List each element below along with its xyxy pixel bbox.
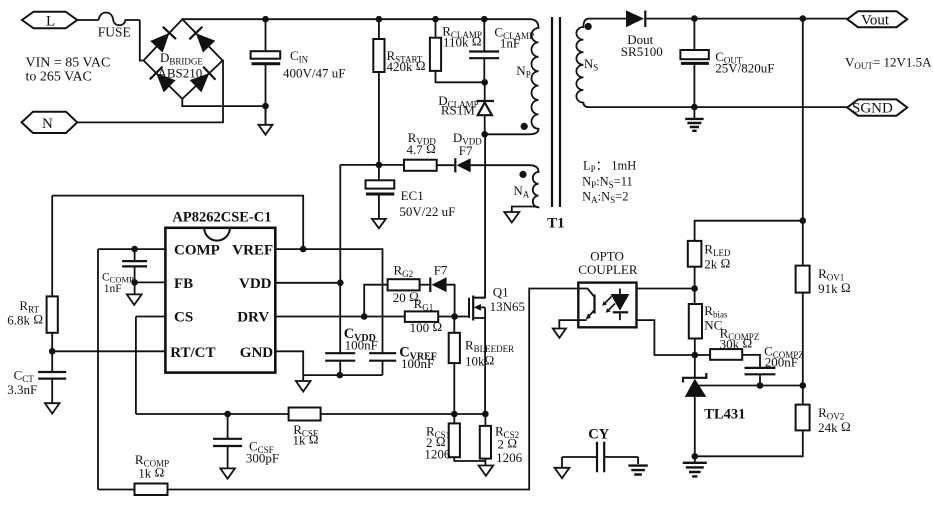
- svg-text:4.7 Ω: 4.7 Ω: [407, 141, 437, 157]
- svg-text:NA:NS=2: NA:NS=2: [582, 190, 628, 206]
- svg-text:DRV: DRV: [237, 310, 269, 326]
- svg-text:SGND: SGND: [852, 101, 893, 117]
- svg-text:1nF: 1nF: [500, 36, 520, 51]
- svg-text:AP8262CSE-C1: AP8262CSE-C1: [172, 210, 271, 226]
- svg-text:30k Ω: 30k Ω: [720, 336, 753, 352]
- svg-text:110k Ω: 110k Ω: [443, 34, 482, 50]
- svg-text:VREF: VREF: [232, 243, 273, 259]
- svg-text:GND: GND: [240, 345, 273, 361]
- svg-text:VIN = 85 VAC: VIN = 85 VAC: [26, 56, 111, 71]
- svg-text:300pF: 300pF: [246, 451, 279, 466]
- svg-text:10kΩ: 10kΩ: [465, 353, 495, 369]
- svg-text:VDD: VDD: [239, 276, 272, 292]
- svg-text:400V/47 uF: 400V/47 uF: [283, 66, 345, 81]
- svg-text:100 Ω: 100 Ω: [410, 319, 443, 335]
- svg-text:COMP: COMP: [174, 243, 220, 259]
- svg-text:1k Ω: 1k Ω: [138, 465, 164, 481]
- svg-text:420k Ω: 420k Ω: [387, 58, 426, 74]
- svg-text:COUPLER: COUPLER: [578, 262, 638, 277]
- svg-text:L: L: [46, 14, 55, 30]
- svg-text:T1: T1: [547, 216, 565, 232]
- svg-text:CY: CY: [588, 427, 609, 443]
- svg-text:Q1: Q1: [493, 285, 509, 300]
- svg-text:SR5100: SR5100: [621, 44, 663, 59]
- svg-text:25V/820uF: 25V/820uF: [715, 61, 774, 76]
- svg-text:F7: F7: [459, 143, 473, 158]
- svg-text:24k Ω: 24k Ω: [818, 419, 851, 435]
- svg-text:200nF: 200nF: [765, 355, 798, 370]
- svg-text:N: N: [42, 116, 53, 132]
- svg-text:FB: FB: [174, 276, 193, 292]
- svg-text:to 265 VAC: to 265 VAC: [26, 70, 92, 85]
- svg-text:1nF: 1nF: [104, 283, 122, 295]
- svg-text:1k Ω: 1k Ω: [293, 432, 319, 448]
- svg-text:100nF: 100nF: [345, 338, 378, 353]
- svg-text:6.8k Ω: 6.8k Ω: [7, 312, 43, 328]
- svg-text:100nF: 100nF: [401, 356, 434, 371]
- svg-text:RT/CT: RT/CT: [170, 345, 215, 361]
- svg-text:3.3nF: 3.3nF: [7, 382, 37, 397]
- svg-text:ABS210: ABS210: [158, 66, 203, 81]
- svg-text:2k Ω: 2k Ω: [704, 256, 730, 272]
- svg-text:F7: F7: [434, 263, 448, 278]
- svg-text:CS: CS: [174, 310, 193, 326]
- svg-text:EC1: EC1: [401, 188, 424, 203]
- svg-text:Vout: Vout: [861, 13, 890, 29]
- svg-text:1206: 1206: [496, 450, 522, 465]
- svg-text:RS1M: RS1M: [441, 103, 475, 118]
- svg-text:91k Ω: 91k Ω: [818, 280, 851, 296]
- svg-text:50V/22 uF: 50V/22 uF: [399, 204, 455, 219]
- svg-text:NP:NS=11: NP:NS=11: [582, 175, 633, 191]
- svg-text:FUSE: FUSE: [98, 25, 131, 40]
- svg-text:13N65: 13N65: [490, 299, 525, 314]
- svg-text:TL431: TL431: [704, 407, 745, 423]
- svg-text:1206: 1206: [424, 447, 451, 462]
